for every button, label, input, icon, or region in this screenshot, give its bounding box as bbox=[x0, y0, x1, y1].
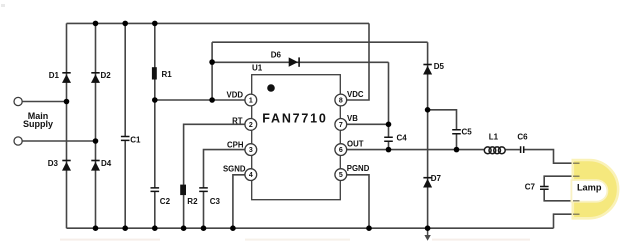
junction node: ground rail / C3 column bbox=[201, 225, 207, 231]
svg-text:D5: D5 bbox=[434, 62, 445, 71]
wire: top supply rail bbox=[67, 22, 370, 24]
wire: charge-pump riser at x=212 up to bus bbox=[211, 42, 213, 100]
capacitor C4 bbox=[384, 137, 393, 141]
junction node: ground rail / D4 column bbox=[93, 225, 99, 231]
wire: SGND lead to ground rail bbox=[233, 175, 245, 228]
wire: C4 column from D6 down through VB to OUT bbox=[388, 62, 390, 149]
pin 5 bbox=[335, 169, 347, 181]
svg-text:Lamp: Lamp bbox=[577, 183, 602, 193]
svg-text:VB: VB bbox=[347, 114, 358, 123]
diode D1 bbox=[62, 72, 71, 83]
wire: PGND pin 5 to ground rail bbox=[347, 175, 370, 228]
svg-text:RT: RT bbox=[232, 116, 243, 125]
junction node: bottom terminal / D4 column bbox=[93, 138, 99, 144]
pin 3 bbox=[245, 144, 257, 156]
wire: R2 lower lead to ground rail bbox=[183, 195, 185, 228]
diode D6 bbox=[289, 57, 300, 66]
op-amp/IC U1 FAN7710 body bbox=[252, 75, 341, 200]
wire: lamp top inner lead to C7 bbox=[544, 176, 578, 186]
svg-text:SGND: SGND bbox=[223, 165, 246, 174]
svg-text:8: 8 bbox=[339, 98, 343, 105]
junction node: VDD / charge-pump riser bbox=[209, 97, 215, 103]
main supply terminal top bbox=[14, 97, 22, 105]
svg-text:VDC: VDC bbox=[347, 90, 364, 99]
ground symbol below D7 bbox=[424, 229, 430, 241]
lamp lead stubs inside glow bbox=[573, 163, 580, 214]
svg-text:R2: R2 bbox=[187, 197, 198, 206]
junction node: OUT / C5 column bbox=[454, 147, 460, 153]
svg-text:D2: D2 bbox=[101, 71, 112, 80]
scan artifact top-left bbox=[1, 4, 5, 7]
pin 4 bbox=[245, 169, 257, 181]
wire: lamp bottom outer lead to ground rail bbox=[554, 214, 579, 228]
pin 1 indicator dot bbox=[267, 84, 275, 92]
capacitor C2 bbox=[151, 188, 160, 192]
svg-text:7: 7 bbox=[339, 122, 343, 129]
pin 6 bbox=[335, 144, 347, 156]
svg-text:VDD: VDD bbox=[227, 91, 244, 100]
resistor R2 bbox=[180, 185, 186, 196]
pin 7 bbox=[335, 119, 347, 131]
wire: VDC pin 8 to top rail bbox=[347, 23, 370, 100]
junction node: top terminal / D1 column bbox=[64, 99, 70, 105]
junction node: D5-D7 midpoint bbox=[425, 107, 431, 113]
diode D4 bbox=[91, 160, 100, 171]
wire: VDC bus from riser to D5 column bbox=[212, 41, 428, 43]
junction node: VDD / R1 column bbox=[152, 97, 158, 103]
junction node: ground rail / SGND drop bbox=[230, 225, 236, 231]
svg-text:6: 6 bbox=[339, 147, 343, 154]
diode D3 bbox=[62, 160, 71, 171]
diode D5 bbox=[423, 64, 432, 75]
capacitor C3 bbox=[199, 188, 208, 192]
wire: C5 branch from D5-D7 midpoint to OUT bbox=[428, 110, 457, 150]
svg-text:D1: D1 bbox=[49, 71, 60, 80]
junction node: ground rail / C2 column bbox=[152, 225, 158, 231]
svg-text:CPH: CPH bbox=[227, 141, 244, 150]
junction node: top rail / R1 column bbox=[152, 21, 158, 27]
pin 1 bbox=[245, 94, 257, 106]
svg-text:U1: U1 bbox=[252, 63, 263, 72]
wire: R1/C2 column bbox=[154, 23, 156, 228]
junction node: ground rail / R2 column bbox=[181, 225, 187, 231]
svg-text:FAN7710: FAN7710 bbox=[262, 112, 327, 126]
inductor L1 bbox=[484, 147, 505, 154]
svg-text:2: 2 bbox=[249, 122, 253, 129]
junction node: top rail / C1 column bbox=[122, 21, 128, 27]
svg-text:C5: C5 bbox=[462, 127, 473, 136]
wire: D6 branch from riser to C4 column bbox=[212, 61, 388, 63]
svg-text:C1: C1 bbox=[130, 136, 141, 145]
svg-text:3: 3 bbox=[249, 147, 253, 154]
wire: OUT run C6 to lamp top outer lead bbox=[524, 150, 578, 164]
main supply terminal bottom bbox=[14, 137, 22, 145]
svg-text:C7: C7 bbox=[525, 182, 536, 191]
pin 8 bbox=[335, 94, 347, 106]
svg-text:R1: R1 bbox=[162, 70, 173, 79]
svg-text:C3: C3 bbox=[210, 197, 221, 206]
wire: VDD feed from R1 column to pin 1 bbox=[155, 99, 245, 101]
capacitor C5 bbox=[452, 130, 461, 134]
svg-text:C2: C2 bbox=[160, 197, 171, 206]
capacitor C7 bbox=[540, 187, 549, 190]
capacitor C6 bbox=[521, 146, 524, 153]
wire: C3 lower lead to ground rail bbox=[203, 192, 205, 229]
wire: lamp bottom inner lead to C7 bbox=[544, 190, 578, 201]
wire: bottom supply terminal lead bbox=[22, 140, 95, 142]
scan artifact smudges at bottom bbox=[60, 239, 160, 241]
wire: CPH lead with drop to C3 bbox=[204, 150, 245, 188]
wire: OUT pin 6 run to L1 bbox=[347, 149, 485, 151]
svg-text:PGND: PGND bbox=[347, 164, 370, 173]
junction node: ground rail / D7 column bbox=[425, 225, 431, 231]
diode D2 bbox=[91, 72, 100, 83]
wire: RT lead with drop to R2 bbox=[184, 124, 245, 185]
capacitor C1 bbox=[121, 137, 130, 141]
wire: VB pin 7 to C4 column bbox=[347, 123, 389, 125]
svg-text:L1: L1 bbox=[489, 133, 499, 142]
svg-text:D4: D4 bbox=[101, 159, 112, 168]
wire: second bridge column (D2/D4) bbox=[95, 23, 97, 228]
svg-text:C4: C4 bbox=[397, 134, 408, 143]
junction node: D6 anode / riser bbox=[209, 59, 215, 65]
resistor R1 bbox=[152, 67, 157, 79]
lamp glow outer bbox=[573, 160, 618, 218]
junction node: VB / C4 column bbox=[386, 122, 392, 128]
wire: left bridge column (D1/D3) bbox=[66, 23, 68, 228]
lamp white inner window bbox=[572, 181, 606, 201]
wire: C1 column bbox=[124, 23, 126, 228]
svg-text:D3: D3 bbox=[48, 159, 59, 168]
svg-text:Supply: Supply bbox=[23, 119, 53, 129]
svg-text:OUT: OUT bbox=[347, 139, 364, 148]
junction node: OUT / C4 column bbox=[386, 147, 392, 153]
wire: bottom ground rail bbox=[67, 227, 554, 229]
svg-text:D7: D7 bbox=[431, 174, 442, 183]
pin 2 bbox=[245, 119, 257, 131]
svg-text:1: 1 bbox=[249, 98, 253, 105]
wire: OUT run L1 to C6 bbox=[505, 149, 520, 151]
wire: top supply terminal lead bbox=[22, 101, 66, 103]
svg-text:D6: D6 bbox=[271, 51, 282, 60]
diode D7 bbox=[423, 177, 432, 188]
svg-text:C6: C6 bbox=[517, 133, 528, 142]
svg-text:5: 5 bbox=[339, 172, 343, 179]
svg-text:4: 4 bbox=[249, 172, 253, 179]
junction node: ground rail / C1 column bbox=[122, 225, 128, 231]
junction node: ground rail / PGND drop bbox=[366, 225, 372, 231]
wire: D5/D7 column bbox=[427, 42, 429, 228]
junction node: top rail / D2 column bbox=[93, 21, 99, 27]
